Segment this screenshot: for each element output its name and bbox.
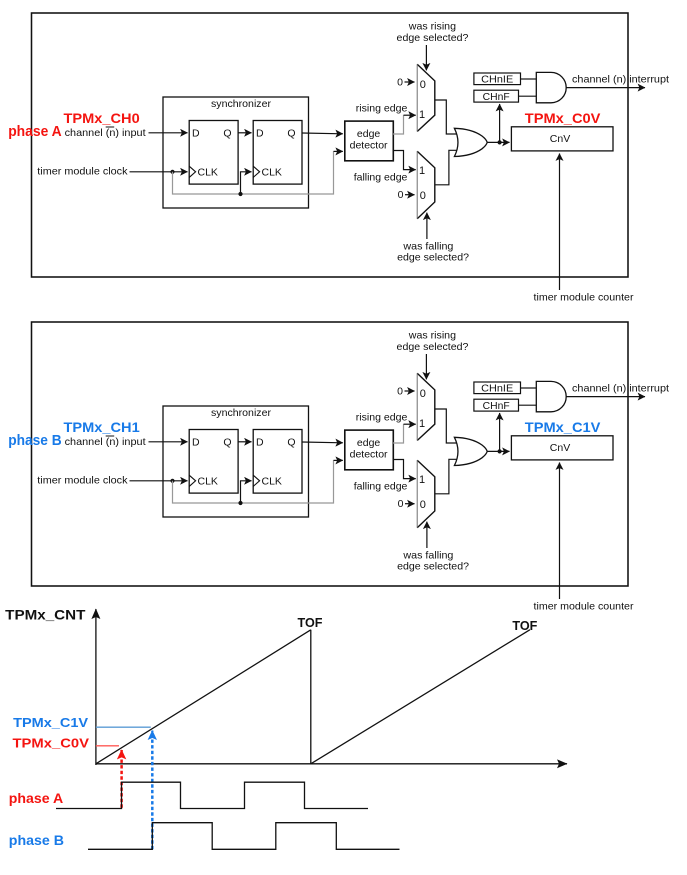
svg-text:phase B: phase B: [9, 832, 64, 848]
svg-text:was rising: was rising: [408, 21, 456, 33]
wire junction up to CHnF flag: [499, 104, 501, 142]
svg-text:D: D: [192, 436, 200, 448]
svg-text:timer module clock: timer module clock: [37, 475, 128, 487]
label timer module counter: [534, 292, 634, 304]
label channel (n) input with overbar on n: [65, 127, 146, 139]
svg-text:CnV: CnV: [550, 133, 570, 145]
flip-flop 1 clock wedge: [189, 166, 195, 177]
label rising edge: [356, 411, 408, 423]
svg-text:was falling: was falling: [402, 241, 453, 253]
svg-text:CLK: CLK: [262, 475, 282, 487]
wire AND output channel interrupt: [566, 396, 645, 398]
svg-text:TOF: TOF: [298, 615, 323, 630]
wire arrow into rising mux input 1: [404, 114, 416, 116]
svg-text:falling edge: falling edge: [354, 172, 408, 184]
label CHnF: [483, 401, 510, 412]
wire channel input to D of first flip-flop: [149, 132, 188, 134]
label TPMx_C1V (blue): [525, 419, 601, 435]
phase A waveform: [56, 782, 368, 808]
svg-text:edge: edge: [357, 437, 381, 449]
wire CHnIE to AND gate: [521, 387, 537, 389]
wire junction up to CLK of flip-flop 2: [241, 481, 252, 503]
svg-text:Q: Q: [223, 127, 231, 139]
CHnIE box: [474, 73, 521, 85]
svg-text:CHnF: CHnF: [483, 92, 510, 103]
svg-text:D: D: [256, 436, 264, 448]
svg-text:was falling: was falling: [402, 550, 453, 562]
svg-text:1: 1: [419, 418, 425, 430]
label was falling edge selected?: [397, 550, 469, 573]
label phase B: [8, 432, 62, 449]
rising mux port labels 0 1: [419, 79, 426, 121]
label CHnIE: [481, 75, 513, 86]
outer box (channel 0 logic): [32, 13, 629, 277]
wire edge detector falling output to mux 1 input: [393, 151, 416, 170]
constant 0 input to rising mux: [397, 76, 414, 88]
svg-text:edge selected?: edge selected?: [397, 32, 469, 44]
wire arrow into edge detector input 2: [334, 459, 343, 461]
falling edge mux trapezoid: [417, 460, 435, 528]
svg-text:CHnF: CHnF: [483, 401, 510, 412]
svg-text:TPMx_C1V: TPMx_C1V: [13, 715, 88, 730]
svg-text:CnV: CnV: [550, 442, 570, 454]
svg-text:channel (n) interrupt: channel (n) interrupt: [572, 74, 669, 86]
label rising edge: [356, 102, 408, 114]
label synchronizer: [211, 407, 272, 419]
svg-text:CHnIE: CHnIE: [481, 75, 513, 86]
wire Q2 to edge detector input 1: [302, 132, 343, 135]
constant 0 input to falling mux: [398, 189, 415, 201]
OR gate: [454, 437, 487, 465]
label CHnIE: [481, 384, 513, 395]
svg-text:0: 0: [420, 499, 426, 511]
svg-text:CLK: CLK: [198, 475, 218, 487]
counter ramp 1: [96, 630, 311, 764]
gray clock distribution wire: [173, 151, 334, 194]
svg-text:Q: Q: [287, 127, 295, 139]
phase B waveform: [88, 823, 400, 850]
wire Q2 to edge detector input 1: [302, 441, 343, 444]
flip-flop 1 box: [189, 430, 238, 494]
junction dot on OR output: [498, 449, 502, 453]
label TOF second: [512, 618, 537, 633]
select arrow into rising mux: [425, 45, 427, 70]
synchronizer box: [163, 97, 309, 208]
svg-text:edge: edge: [357, 128, 381, 140]
svg-text:0: 0: [397, 76, 403, 88]
svg-text:detector: detector: [350, 139, 388, 151]
junction dot on clock wire: [170, 479, 174, 483]
flip-flop 2 clock wedge: [253, 166, 259, 177]
svg-text:channel (n) input: channel (n) input: [65, 127, 146, 139]
svg-text:TPMx_CH1: TPMx_CH1: [64, 419, 140, 435]
CHnIE box: [474, 382, 521, 394]
rising mux port labels 0 1: [419, 388, 426, 430]
svg-text:timer module counter: timer module counter: [534, 292, 634, 304]
svg-text:edge selected?: edge selected?: [397, 252, 469, 264]
wire arrow into edge detector input 2: [334, 150, 343, 152]
svg-text:CLK: CLK: [198, 166, 218, 178]
TPMx_C1V level line (light blue): [96, 726, 151, 728]
wire OR output to CnV register: [487, 141, 509, 143]
svg-text:synchronizer: synchronizer: [211, 407, 272, 419]
flip-flop 1 pin labels D Q CLK: [192, 127, 232, 178]
wire Q1 to D of flip-flop 2: [238, 132, 251, 134]
CnV register box: [511, 436, 613, 460]
label falling edge: [354, 172, 408, 184]
label phase A: [8, 123, 62, 140]
wire OR output to CnV register: [487, 450, 509, 452]
wire timer module counter up into CnV: [559, 463, 561, 600]
label CnV: [550, 133, 570, 145]
AND gate: [536, 381, 566, 411]
svg-text:Q: Q: [287, 436, 295, 448]
svg-text:phase B: phase B: [8, 432, 62, 449]
svg-text:TPMx_C0V: TPMx_C0V: [13, 736, 90, 751]
wire timer module clock to CLK of first flip-flop: [130, 171, 188, 173]
svg-text:detector: detector: [350, 448, 388, 460]
counter ramp 2: [311, 630, 530, 764]
OR gate: [454, 128, 487, 156]
label TPMx_CNT: [5, 608, 86, 623]
wire falling mux output to OR gate: [435, 150, 457, 185]
wire arrow into rising mux input 1: [404, 423, 416, 425]
junction dot on clock distribution wire: [238, 501, 242, 505]
flip-flop 2 box: [253, 430, 302, 494]
select arrow into falling mux: [426, 522, 428, 548]
falling edge mux trapezoid: [417, 151, 435, 219]
AND gate: [536, 72, 566, 102]
label was falling edge selected?: [397, 241, 469, 264]
flip-flop 2 box: [253, 121, 302, 185]
svg-text:D: D: [256, 127, 264, 139]
rising edge mux trapezoid: [417, 64, 435, 131]
svg-text:1: 1: [419, 474, 425, 486]
wire timer module clock to CLK of first flip-flop: [130, 480, 188, 482]
wire falling mux output to OR gate: [435, 459, 457, 494]
svg-text:1: 1: [419, 165, 425, 177]
label channel (n) input with overbar on n: [65, 436, 146, 448]
label channel (n) interrupt: [572, 74, 669, 86]
label CHnF: [483, 92, 510, 103]
edge detector box: [345, 430, 394, 470]
blue dashed capture arrow from phase B edge: [151, 731, 154, 850]
wire edge detector rising output to mux 1 input (gray elbow): [393, 115, 404, 134]
wire junction up to CHnF flag: [499, 413, 501, 451]
wire junction up to CLK of flip-flop 2: [241, 172, 252, 194]
wire CHnF to AND gate: [519, 404, 537, 406]
rising edge mux trapezoid: [417, 373, 435, 440]
svg-text:TPMx_CH0: TPMx_CH0: [64, 110, 140, 126]
synchronizer box: [163, 406, 309, 517]
svg-text:0: 0: [420, 388, 426, 400]
svg-text:rising edge: rising edge: [356, 411, 408, 423]
svg-text:synchronizer: synchronizer: [211, 98, 272, 110]
svg-text:edge selected?: edge selected?: [397, 341, 469, 353]
svg-text:TPMx_C0V: TPMx_C0V: [525, 110, 601, 126]
label was rising edge selected?: [397, 21, 469, 44]
constant 0 input to falling mux: [398, 498, 415, 510]
svg-text:0: 0: [420, 190, 426, 202]
svg-text:TPMx_CNT: TPMx_CNT: [5, 608, 86, 623]
flip-flop 2 pin labels D Q CLK: [256, 436, 296, 487]
outer box (channel 1 logic): [32, 322, 629, 586]
svg-text:0: 0: [397, 385, 403, 397]
label edge detector: [350, 128, 388, 152]
label phase B (blue): [9, 832, 64, 848]
label edge detector: [350, 437, 388, 461]
svg-text:rising edge: rising edge: [356, 102, 408, 114]
svg-text:phase A: phase A: [9, 790, 63, 806]
wire edge detector falling output to mux 1 input: [393, 460, 416, 479]
junction dot on OR output: [498, 140, 502, 144]
select arrow into rising mux: [425, 354, 427, 379]
flip-flop 1 box: [189, 121, 238, 185]
flip-flop 2 clock wedge: [253, 475, 259, 486]
CHnF box: [474, 399, 519, 411]
counter vertical axis: [95, 609, 97, 765]
label TPMx_CH0 (red): [64, 110, 140, 126]
falling mux port labels 1 0: [419, 165, 426, 202]
wire CHnIE to AND gate: [521, 78, 537, 80]
flip-flop 1 clock wedge: [189, 475, 195, 486]
label CnV: [550, 442, 570, 454]
wire timer module counter up into CnV: [559, 154, 561, 291]
label timer module clock: [37, 475, 128, 487]
edge detector box: [345, 121, 394, 161]
wire AND output channel interrupt: [566, 87, 645, 89]
svg-text:0: 0: [398, 498, 404, 510]
label TPMx_C0V (red): [13, 736, 90, 751]
label timer module counter: [534, 601, 634, 613]
svg-text:TPMx_C1V: TPMx_C1V: [525, 419, 601, 435]
wire CHnF to AND gate: [519, 95, 537, 97]
label phase A (red): [9, 790, 63, 806]
flip-flop 1 pin labels D Q CLK: [192, 436, 232, 487]
svg-text:channel (n) interrupt: channel (n) interrupt: [572, 383, 669, 395]
junction dot on clock wire: [170, 170, 174, 174]
constant 0 input to rising mux: [397, 385, 414, 397]
wire channel input to D of first flip-flop: [149, 441, 188, 443]
label TPMx_C1V (blue): [13, 715, 88, 730]
label synchronizer: [211, 98, 272, 110]
svg-text:D: D: [192, 127, 200, 139]
svg-text:channel (n) input: channel (n) input: [65, 436, 146, 448]
wire rising mux output to OR gate: [435, 100, 457, 134]
label falling edge: [354, 481, 408, 493]
svg-text:Q: Q: [223, 436, 231, 448]
label channel (n) interrupt: [572, 383, 669, 395]
CnV register box: [511, 127, 613, 151]
svg-text:TOF: TOF: [512, 618, 537, 633]
gray clock distribution wire: [173, 460, 334, 503]
label TPMx_C0V (red): [525, 110, 601, 126]
label TPMx_CH1 (blue): [64, 419, 140, 435]
wire edge detector rising output to mux 1 input (gray elbow): [393, 424, 404, 443]
select arrow into falling mux: [426, 213, 428, 239]
svg-text:edge selected?: edge selected?: [397, 561, 469, 573]
label was rising edge selected?: [397, 330, 469, 353]
junction dot on clock distribution wire: [238, 192, 242, 196]
counter horizontal axis: [96, 763, 567, 765]
counter overflow drop: [310, 630, 312, 764]
flip-flop 2 pin labels D Q CLK: [256, 127, 296, 178]
svg-text:CHnIE: CHnIE: [481, 384, 513, 395]
svg-text:0: 0: [398, 189, 404, 201]
label timer module clock: [37, 166, 128, 178]
svg-text:phase A: phase A: [8, 123, 62, 140]
svg-text:0: 0: [420, 79, 426, 91]
svg-text:timer module clock: timer module clock: [37, 166, 128, 178]
wire rising mux output to OR gate: [435, 409, 457, 443]
svg-text:was rising: was rising: [408, 330, 456, 342]
falling mux port labels 1 0: [419, 474, 426, 511]
red dashed capture arrow from phase A edge: [120, 750, 123, 808]
TPMx_C0V level line (light red): [96, 745, 119, 747]
svg-text:falling edge: falling edge: [354, 481, 408, 493]
wire Q1 to D of flip-flop 2: [238, 441, 251, 443]
svg-text:CLK: CLK: [262, 166, 282, 178]
svg-text:timer module counter: timer module counter: [534, 601, 634, 613]
svg-text:1: 1: [419, 109, 425, 121]
CHnF box: [474, 90, 519, 102]
label TOF first: [298, 615, 323, 630]
